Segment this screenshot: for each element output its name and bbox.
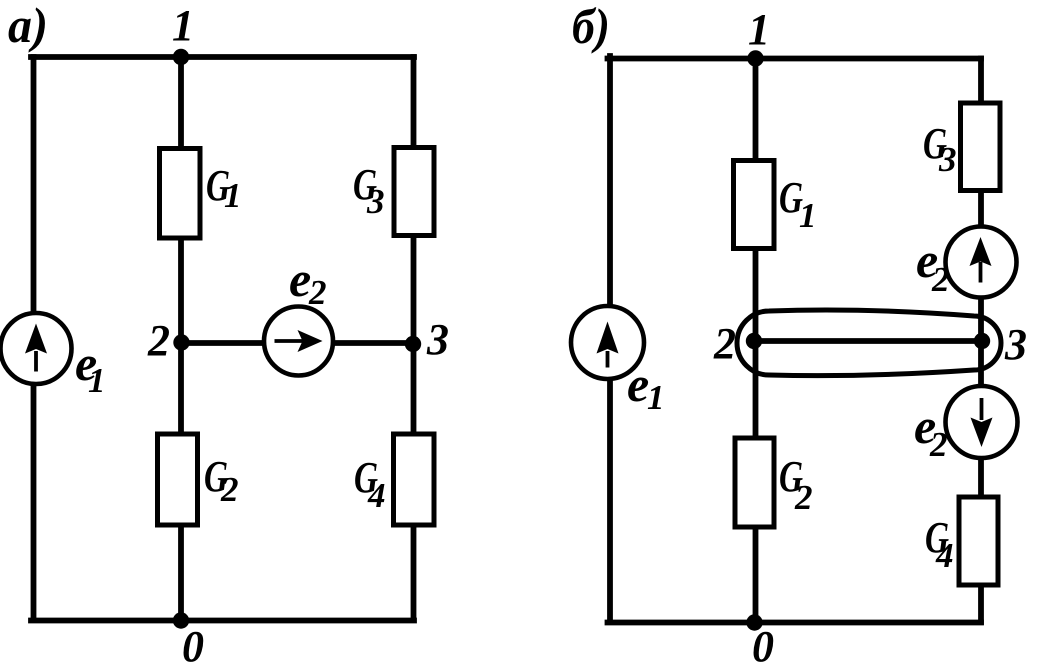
svg-text:1: 1: [799, 196, 817, 235]
svg-text:2: 2: [713, 319, 736, 368]
svg-text:3: 3: [426, 315, 449, 364]
svg-text:0: 0: [752, 622, 774, 671]
svg-text:4: 4: [935, 536, 954, 575]
svg-text:1: 1: [748, 5, 770, 54]
svg-text:2: 2: [794, 478, 813, 517]
svg-text:2: 2: [147, 316, 170, 365]
svg-text:e: e: [289, 251, 311, 307]
svg-text:0: 0: [182, 622, 204, 671]
svg-text:а): а): [8, 0, 48, 53]
svg-text:1: 1: [224, 176, 242, 215]
svg-text:1: 1: [88, 361, 106, 400]
svg-text:б): б): [572, 0, 610, 54]
svg-text:2: 2: [929, 425, 948, 464]
svg-text:4: 4: [367, 476, 386, 515]
svg-text:3: 3: [1004, 320, 1027, 369]
svg-text:2: 2: [931, 260, 950, 299]
svg-text:3: 3: [938, 140, 957, 179]
svg-text:2: 2: [220, 470, 239, 509]
svg-text:1: 1: [647, 378, 665, 417]
svg-text:3: 3: [366, 182, 385, 221]
svg-text:2: 2: [308, 273, 327, 312]
svg-text:1: 1: [172, 1, 194, 50]
svg-text:e: e: [627, 356, 649, 412]
